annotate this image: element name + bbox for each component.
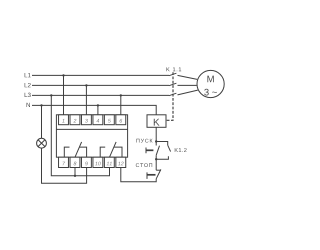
node junction on L2 bbox=[85, 84, 87, 86]
terminal 7 bbox=[59, 157, 69, 167]
node junction on L1 bbox=[62, 74, 64, 76]
wire coil K bottom lead bbox=[155, 127, 157, 141]
button PUSK lower lead bbox=[155, 155, 157, 159]
wire N drop to lamp bbox=[41, 105, 43, 138]
relay contact 7-8-9 hook 9 bbox=[79, 147, 86, 157]
terminal 12 bbox=[116, 157, 126, 167]
terminal 6 bbox=[116, 115, 126, 125]
contactor K1.1 blade phase 3 bbox=[169, 93, 176, 96]
button PUSK actuator rod bbox=[146, 149, 153, 151]
wire L1 tap to terminal 1 bbox=[63, 75, 65, 114]
button PUSK blade bbox=[156, 146, 159, 156]
label L3 bbox=[25, 93, 31, 97]
node junction on N right bbox=[97, 104, 99, 106]
relay contact 7-8-9 blade from 8 bbox=[75, 142, 82, 157]
motor M1 label 3~ bbox=[204, 89, 217, 96]
wire L3 left drop feeding terminals 8 and 11 bbox=[51, 95, 109, 175]
terminal 8 bbox=[70, 157, 80, 167]
node junction control bottom bbox=[155, 158, 157, 160]
contactor K1.1 blade phase 2 bbox=[169, 83, 176, 86]
label PUSK bbox=[136, 139, 152, 143]
button PUSK actuator bar bbox=[145, 148, 147, 154]
node junction on N left bbox=[40, 104, 42, 106]
button PUSK top lead bbox=[155, 142, 157, 146]
terminal 11 bbox=[104, 157, 114, 167]
motor M1 letter M bbox=[207, 76, 213, 83]
motor M1 circle bbox=[197, 70, 224, 97]
label L1 bbox=[25, 73, 31, 77]
button STOP blade bbox=[156, 169, 161, 178]
terminal 1 bbox=[59, 115, 69, 125]
label K 1.1 bbox=[166, 67, 181, 71]
node junction on L3 right bbox=[120, 94, 122, 96]
wire terminal 12 to stop button bbox=[121, 168, 156, 182]
relay U1 separator line bbox=[56, 128, 127, 130]
label L2 bbox=[25, 83, 31, 87]
lamp HL circle bbox=[37, 138, 47, 148]
wire phase 3 to motor bbox=[178, 90, 198, 95]
wire L2 tap to terminal 3 bbox=[85, 85, 87, 114]
relay contact 10-11-12 hook 12 bbox=[114, 147, 122, 157]
wire lamp bottom to terminal 9 bbox=[42, 148, 87, 183]
relay contact 10-11-12 blade from 11 bbox=[110, 142, 117, 157]
wire L1 line bbox=[32, 74, 169, 76]
wire N tap to terminal 4 bbox=[97, 105, 99, 114]
terminal 10 bbox=[93, 157, 103, 167]
terminal 4 bbox=[93, 115, 103, 125]
relay contact 7-8-9 hook 7 bbox=[64, 147, 69, 157]
contactor K1.1 mechanical dashed link bbox=[166, 72, 173, 120]
label N bbox=[27, 103, 30, 107]
contactor K1.1 blade phase 1 bbox=[169, 73, 176, 76]
wire terminal 8 lead bbox=[74, 168, 76, 176]
wire K1.2 branch top bbox=[156, 142, 168, 146]
wire L3 tap to terminal 6 bbox=[120, 95, 122, 114]
terminal 5 bbox=[104, 115, 114, 125]
lamp HL cross bbox=[38, 140, 45, 147]
label K1.2 bbox=[175, 148, 187, 152]
terminal 9 bbox=[81, 157, 91, 167]
coil K box bbox=[147, 115, 166, 128]
wire L2 line bbox=[32, 84, 169, 86]
node junction on L3 left bbox=[50, 94, 52, 96]
wire K1.2 branch bottom bbox=[156, 156, 168, 159]
terminal 2 bbox=[70, 115, 80, 125]
terminal 3 bbox=[81, 115, 91, 125]
relay U1 body bbox=[56, 115, 127, 157]
wire L3 line bbox=[32, 94, 169, 96]
node junction terminal 8 lead bbox=[74, 175, 76, 177]
button STOP top lead bbox=[155, 159, 157, 170]
node junction control top bbox=[155, 140, 157, 142]
relay contact 10-11-12 hook 10 bbox=[100, 147, 105, 157]
button STOP actuator bar bbox=[146, 172, 148, 179]
wire phase 1 to motor bbox=[178, 75, 198, 79]
button STOP actuator rod bbox=[147, 174, 156, 176]
wire phase 2 to motor bbox=[178, 84, 197, 86]
button STOP seat bbox=[156, 169, 161, 171]
wire N line bending down to coil K top bbox=[32, 105, 156, 114]
contact K1.2 blade bbox=[168, 145, 171, 151]
label STOP bbox=[136, 163, 152, 167]
coil K letter bbox=[154, 119, 160, 126]
